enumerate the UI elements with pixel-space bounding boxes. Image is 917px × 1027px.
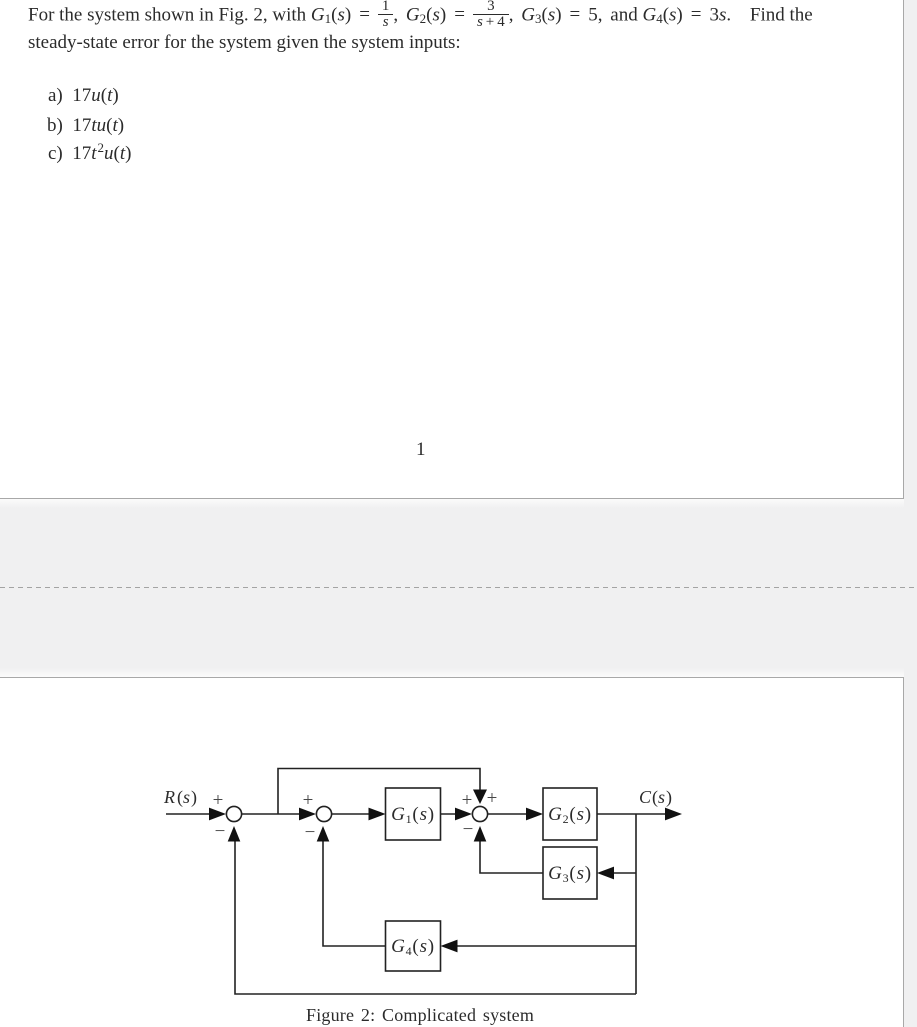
svg-text:G2(s): G2(s): [548, 804, 592, 826]
svg-text:): ): [191, 787, 197, 808]
svg-text:+: +: [487, 788, 498, 809]
svg-text:G1(s): G1(s): [391, 804, 435, 826]
svg-text:G4(s): G4(s): [391, 936, 435, 958]
svg-text:+: +: [462, 790, 473, 811]
svg-text:−: −: [215, 821, 226, 842]
svg-text:): ): [666, 787, 672, 808]
svg-text:−: −: [305, 822, 316, 843]
svg-text:R: R: [163, 787, 175, 807]
svg-text:s: s: [658, 787, 665, 807]
svg-text:G3(s): G3(s): [548, 863, 592, 885]
svg-text:s: s: [183, 787, 190, 807]
svg-text:−: −: [463, 819, 474, 840]
svg-text:+: +: [303, 790, 314, 811]
svg-text:+: +: [213, 790, 224, 811]
svg-text:C: C: [639, 787, 652, 807]
